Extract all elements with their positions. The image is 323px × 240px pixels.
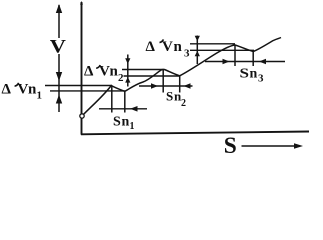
svg-text:1: 1 <box>130 121 135 132</box>
svg-text:2: 2 <box>118 72 124 84</box>
svg-text:1: 1 <box>37 90 43 102</box>
svg-text:n: n <box>250 67 258 82</box>
svg-text:V: V <box>162 39 173 55</box>
svg-text:Δ: Δ <box>84 64 94 80</box>
svg-text:3: 3 <box>258 73 264 85</box>
svg-text:S: S <box>224 133 237 158</box>
svg-text:Δ: Δ <box>146 39 156 55</box>
svg-text:Δ: Δ <box>2 82 12 98</box>
svg-text:S: S <box>240 67 250 82</box>
svg-text:S: S <box>166 89 173 104</box>
svg-text:n: n <box>174 39 183 55</box>
svg-text:S: S <box>113 115 121 130</box>
svg-text:n: n <box>122 115 130 130</box>
svg-text:V: V <box>18 82 29 98</box>
svg-text:3: 3 <box>184 48 190 60</box>
svg-text:2: 2 <box>181 98 186 109</box>
svg-text:V: V <box>50 37 67 58</box>
svg-text:V: V <box>99 64 110 80</box>
